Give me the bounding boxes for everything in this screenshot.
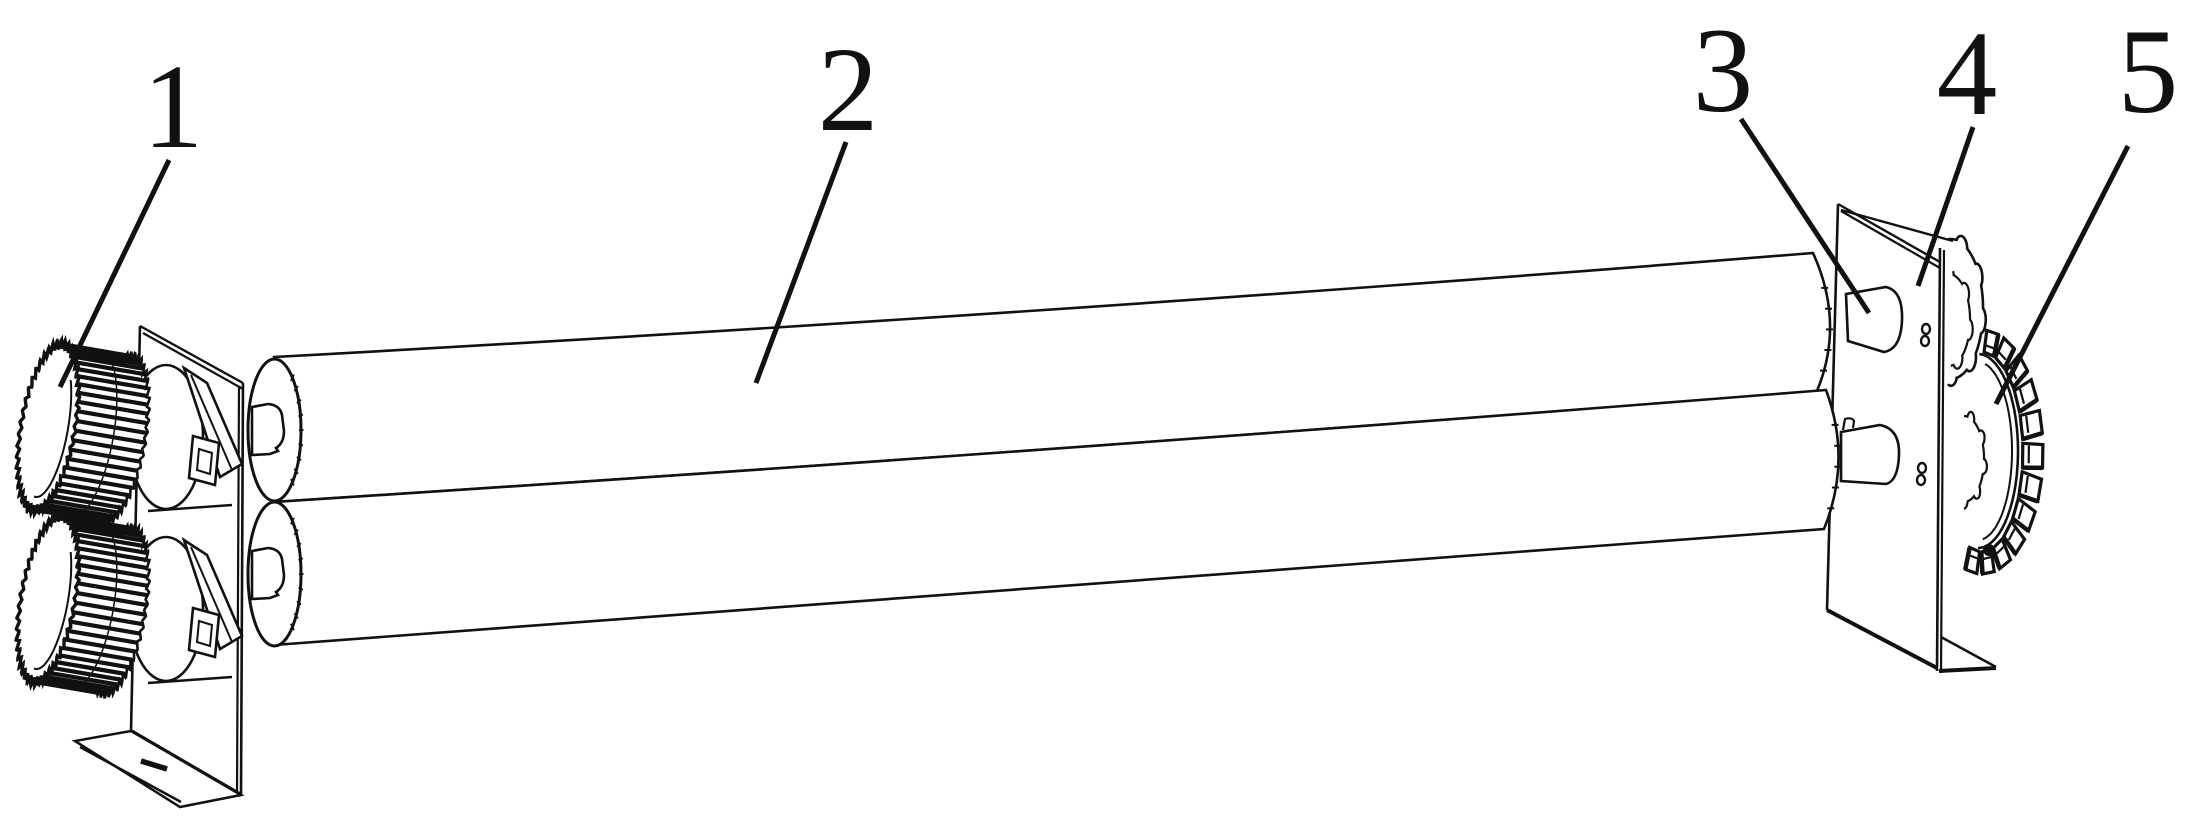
lower roller left end ellipse — [248, 502, 304, 646]
gear 5 lower right (sprocket) — [1964, 330, 2043, 574]
svg-text:2: 2 — [818, 23, 879, 157]
right support plate — [1827, 204, 1953, 673]
roller 2 upper cylinder body — [274, 253, 1830, 502]
upper roller right shaft stub 3 — [1846, 287, 1902, 352]
leader line for 1 — [60, 160, 169, 387]
lower roller right end cap ticks — [1827, 425, 1841, 508]
gear behind right plate (upper) — [1948, 236, 1986, 386]
svg-text:4: 4 — [1937, 7, 1998, 141]
svg-text:5: 5 — [2118, 5, 2179, 139]
right foot bracket — [1939, 637, 1996, 671]
gear 1 upper left (helical gear) — [16, 340, 150, 526]
svg-text:1: 1 — [143, 40, 204, 174]
leader line for 4 — [1918, 127, 1973, 286]
screw upper on right plate — [1921, 324, 1930, 346]
upper roller left shaft stub — [252, 404, 284, 455]
screw lower on right plate — [1917, 463, 1926, 485]
lower roller right shaft stub — [1841, 418, 1899, 484]
lower roller left shaft stub — [252, 548, 284, 599]
leader line for 5 — [1996, 146, 2128, 404]
upper roller left end ellipse — [248, 359, 304, 501]
roller lower cylinder body — [274, 390, 1839, 645]
bearing housing lower — [129, 537, 242, 683]
gear 1 lower left (helical gear) — [16, 512, 150, 698]
bearing housing upper — [129, 365, 242, 511]
left foot bracket — [75, 731, 241, 807]
upper roller right end cap ticks — [1820, 288, 1833, 371]
svg-text:3: 3 — [1693, 4, 1754, 138]
left support plate — [131, 326, 243, 795]
leader line for 2 — [756, 142, 846, 383]
leader line for 3 — [1741, 119, 1869, 313]
